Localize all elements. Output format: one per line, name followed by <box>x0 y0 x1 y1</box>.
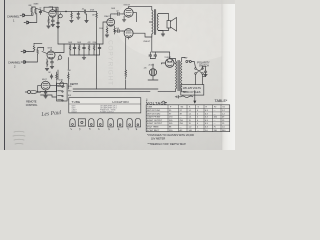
arrow: to voltage table <box>194 91 196 104</box>
signature Les Paul <box>40 110 62 118</box>
resistor R6 68K <box>33 43 42 50</box>
svg-text:—: — <box>214 123 216 125</box>
annotation mark <box>162 101 167 103</box>
tube V7 tremolo <box>41 81 50 90</box>
svg-text:CHANNEL: CHANNEL <box>8 61 21 65</box>
capacitor C5 <box>73 44 76 55</box>
label POLARITY SWITCH <box>197 61 210 67</box>
svg-text:6V6GT: 6V6GT <box>72 112 77 114</box>
junction node A <box>66 11 67 12</box>
svg-text:*VOLTAGES TO CHASSIS WITH 20,0: *VOLTAGES TO CHASSIS WITH 20,000 <box>147 133 194 137</box>
capacitor C0 input <box>39 10 42 15</box>
plug P1 line cord <box>175 95 193 98</box>
socket icon 4 <box>97 119 103 131</box>
wire: into PI <box>97 22 108 55</box>
socket icon 5 <box>108 118 114 131</box>
socket icon 2 (square) <box>78 119 85 131</box>
wire: C2 to PI grid <box>86 10 97 12</box>
paper background <box>0 0 235 150</box>
table: tube location box <box>69 98 141 113</box>
svg-text:12AX7 PH INV: 12AX7 PH INV <box>147 116 161 119</box>
terminal labels <box>68 86 72 102</box>
fuse F1 <box>186 61 192 63</box>
socket icon 7 <box>127 118 133 131</box>
socket icon 3 <box>88 119 94 131</box>
resistor R8 cathode ch2 <box>46 59 47 67</box>
capacitor C8 coupling upper <box>115 12 123 15</box>
ground (R4b) <box>70 21 74 23</box>
svg-text:.02: .02 <box>82 8 85 10</box>
transformer T2 secondary <box>157 14 158 31</box>
svg-text:CONTROL: CONTROL <box>26 104 38 107</box>
capacitor C11 filter <box>154 52 157 59</box>
input jack J2 <box>24 21 31 24</box>
plug P2 remote <box>25 90 40 93</box>
svg-text:DEPTH: DEPTH <box>70 83 78 86</box>
svg-text:105-125 VOLTS: 105-125 VOLTS <box>183 86 202 90</box>
wire: screens <box>133 13 137 34</box>
svg-text:—: — <box>214 113 216 115</box>
svg-text:TUBE: TUBE <box>147 107 153 109</box>
footnote: voltages <box>147 133 194 146</box>
svg-text:6V6GT OUTPUT: 6V6GT OUTPUT <box>147 120 163 122</box>
switch S2 polarity <box>195 68 204 75</box>
wire: V4 plate to OT <box>129 7 152 10</box>
wire: jacks to grid network <box>27 13 37 23</box>
ground (C1) <box>51 25 55 27</box>
voltage table column rules <box>168 105 221 132</box>
resistor R4b 470K <box>71 11 73 19</box>
wire: V2 plate out <box>55 44 64 53</box>
ground (speaker) <box>158 31 165 37</box>
smudge stamp bottom left <box>13 131 25 144</box>
sheet left border line <box>4 0 6 150</box>
capacitor C3 tone ch1 <box>57 21 60 26</box>
capacitor C9 coupling lower <box>115 29 123 32</box>
wire: PI plate up <box>111 14 115 19</box>
wire: rectifier to transformer <box>161 63 175 64</box>
svg-text:—: — <box>214 110 216 112</box>
wire: V1 plate to coupling cap <box>56 10 84 12</box>
wire: trem B+ <box>57 70 59 80</box>
ground (C4) <box>50 67 54 69</box>
ground (output cathodes) <box>122 16 126 22</box>
filter can FC1 <box>149 69 156 76</box>
svg-text:6V6GT: 6V6GT <box>144 41 151 43</box>
capacitor C7 <box>98 44 101 55</box>
potentiometer volume ch1 <box>58 13 62 19</box>
transformer T2 core <box>155 10 156 35</box>
transformer T1 secondary winding <box>181 61 182 89</box>
input jack J4 <box>21 60 28 63</box>
ground (V2 cathode) <box>45 69 49 71</box>
wire: grid to V2 <box>42 52 47 54</box>
svg-text:50-60 CYCLES: 50-60 CYCLES <box>183 90 201 94</box>
svg-text:**TREMOLO 'OFF' DEPTH 'MAX': **TREMOLO 'OFF' DEPTH 'MAX' <box>148 142 187 146</box>
wire: jacks ch2 to grid <box>28 51 38 63</box>
table: voltage box <box>146 105 230 132</box>
resistor R9 100K <box>69 44 71 55</box>
wire: secondary to speaker <box>158 14 168 31</box>
svg-text:SW: SW <box>184 58 187 60</box>
svg-text:5Y3GT RECT: 5Y3GT RECT <box>147 130 160 132</box>
svg-text:6SQ7 TREM: 6SQ7 TREM <box>147 127 159 129</box>
svg-text:6SQ7: 6SQ7 <box>42 79 47 81</box>
svg-text:K2: K2 <box>223 107 225 109</box>
svg-text:—: — <box>197 130 199 132</box>
wire: grid to V1 <box>32 7 49 13</box>
tube V4 6V6GT <box>124 7 133 18</box>
ground (PI tail) <box>105 35 109 37</box>
resistor R1 68K <box>31 7 33 15</box>
wire: C9 from PI <box>114 29 116 32</box>
capacitor C2 coupling .02 <box>84 10 85 13</box>
svg-text:—: — <box>180 117 182 119</box>
resistor R4 plate load <box>55 9 56 13</box>
svg-text:12AX7: 12AX7 <box>104 15 110 18</box>
resistor R14 PI load <box>114 26 116 34</box>
wire: T1 bottom leads <box>158 89 187 92</box>
tube V3 12AX7 <box>107 18 115 26</box>
input jack J1 <box>20 14 27 17</box>
transformer T1 primary winding <box>176 61 177 89</box>
wire: switch to line box <box>191 62 205 85</box>
wire: V5 plate to OT <box>133 33 152 37</box>
capacitor C4 bypass ch2 <box>51 59 54 66</box>
wire: trem network <box>50 81 60 91</box>
svg-text:1MEG: 1MEG <box>34 3 39 5</box>
svg-text:6V6GT OUTPUT: 6V6GT OUTPUT <box>147 123 163 125</box>
wire: B+ rail <box>58 43 103 45</box>
ground (C12) <box>204 75 207 77</box>
resistor R11 47K <box>88 44 90 55</box>
table rows (tube list) <box>72 104 117 113</box>
ground (divider bus) <box>82 58 86 60</box>
tube V2 5879 <box>47 49 55 59</box>
wire: B+ feed from top <box>44 7 58 44</box>
voltage table data rows <box>147 110 226 132</box>
svg-text:+85: +85 <box>144 68 147 70</box>
wire: long drop from R5 <box>96 20 98 45</box>
capacitor C14 trem osc <box>50 74 53 79</box>
ground (trem) <box>44 96 48 98</box>
svg-text:Ω/V METER: Ω/V METER <box>151 137 165 141</box>
wire: trem verticals <box>38 58 69 92</box>
svg-text:TABLE*: TABLE* <box>215 99 228 103</box>
svg-text:4.7M: 4.7M <box>59 80 63 82</box>
socket icon 8 <box>135 118 141 131</box>
svg-text:COPYRIGHT: COPYRIGHT <box>107 40 114 86</box>
table header rule <box>69 103 141 105</box>
ground (C2 divider) <box>85 14 89 23</box>
svg-text:.02: .02 <box>39 8 41 10</box>
label line voltage box <box>181 85 204 96</box>
wire: B+ center tap down <box>149 22 152 52</box>
socket icon 1 <box>70 119 76 131</box>
svg-text:P2: P2 <box>214 107 216 109</box>
transformer T1 core <box>178 60 179 91</box>
capacitor C1 cathode bypass <box>51 17 54 24</box>
resistor R10 100K <box>78 44 80 55</box>
capacitor C6 <box>83 44 86 55</box>
input jack J3 <box>21 50 28 53</box>
potentiometer depth <box>60 81 64 87</box>
resistor R3 cathode <box>48 17 49 26</box>
resistor R5 1M <box>96 11 98 19</box>
speaker SP1 <box>167 18 177 32</box>
resistor R15 feedback <box>125 70 127 79</box>
label CHANNEL 1 <box>7 15 20 23</box>
remote unit box <box>57 84 68 102</box>
wire: remote leads <box>41 92 57 98</box>
voltage table row rules <box>146 109 230 129</box>
wire: feedback vertical <box>125 38 127 71</box>
svg-text:5879 1ST CH1: 5879 1ST CH1 <box>147 110 161 112</box>
tube V5 6V6GT <box>124 29 133 39</box>
wire: drop to heater <box>97 55 126 89</box>
ground (tone ch1) <box>56 27 59 29</box>
resistor R16 trem <box>56 72 58 80</box>
svg-text:.02: .02 <box>116 10 119 12</box>
svg-text:LOCATION: LOCATION <box>113 100 129 104</box>
label REMOTE CONTROL <box>26 101 38 107</box>
socket icon 6 <box>117 118 123 131</box>
svg-text:POWER OUTPUT: POWER OUTPUT <box>100 112 114 114</box>
wire: grids of output tubes <box>123 14 125 32</box>
tube V6 5Y3GT <box>165 59 174 68</box>
wire: B+ to plate <box>44 7 58 9</box>
capacitor C10 filter <box>149 52 152 59</box>
terminals inside remote box <box>58 86 64 101</box>
resistor R17 10K <box>68 72 70 80</box>
svg-text:CHANNEL: CHANNEL <box>7 15 20 19</box>
resistor R2 68K <box>35 8 37 14</box>
capacitor C13 trem <box>44 90 47 95</box>
label CHANNEL 2 <box>8 61 21 69</box>
potentiometer volume ch2 <box>58 54 62 60</box>
wire: heater lines <box>73 89 158 92</box>
ground (V1 cathode) <box>47 26 51 28</box>
resistor R7 68K <box>37 48 44 55</box>
wire: rect to filters <box>148 52 170 80</box>
wire: T1 top leads <box>170 58 186 62</box>
capacitor C2b bright <box>77 11 80 19</box>
svg-text:—: — <box>180 127 182 129</box>
resistor R13 PI tail <box>106 26 108 34</box>
wire: divider lower bus <box>70 55 100 57</box>
svg-text:TUBE: TUBE <box>72 100 81 104</box>
svg-text:—: — <box>214 120 216 122</box>
tube V1 5879 <box>49 8 56 18</box>
capacitor C12 line <box>204 70 207 74</box>
transformer T2 primary <box>152 10 153 34</box>
resistor R12 220K <box>93 44 95 55</box>
svg-text:5879 1ST CH2: 5879 1ST CH2 <box>147 113 161 115</box>
voltage table header text <box>147 107 225 109</box>
